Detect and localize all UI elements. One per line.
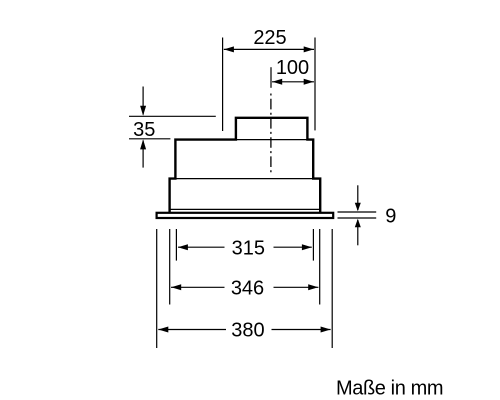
svg-text:225: 225: [253, 27, 286, 49]
svg-text:346: 346: [231, 278, 264, 300]
svg-text:35: 35: [133, 119, 155, 141]
svg-text:9: 9: [385, 205, 396, 227]
svg-text:100: 100: [276, 57, 309, 79]
svg-text:380: 380: [231, 320, 264, 342]
svg-text:315: 315: [232, 237, 265, 259]
svg-text:Maße in mm: Maße in mm: [336, 378, 443, 400]
